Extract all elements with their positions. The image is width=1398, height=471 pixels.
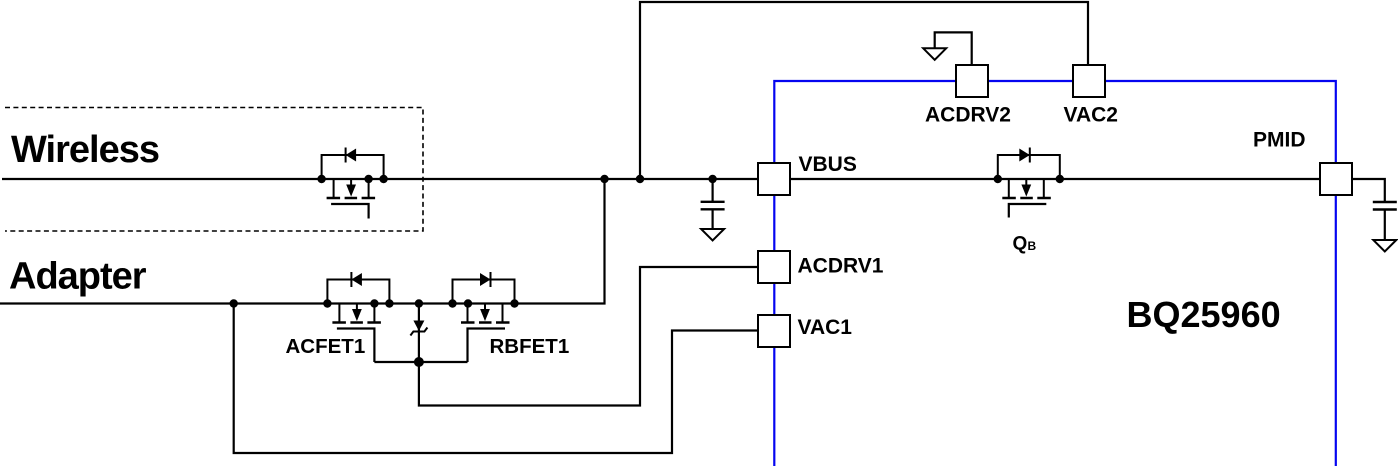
IC pin VAC2 xyxy=(1073,65,1105,97)
svg-text:ACDRV2: ACDRV2 xyxy=(925,104,1011,127)
wire: adapter input net xyxy=(0,179,605,304)
wire: VBUS to PMID through QB xyxy=(790,178,1320,180)
transistor wireless reverse-blocking FET xyxy=(317,148,387,219)
wire: top net from VBUS node to VAC2 xyxy=(640,2,1088,179)
wire: VAC1 to adapter net xyxy=(234,304,758,454)
ground at ACDRV2 xyxy=(923,48,946,60)
node: wireless/adapter merge junction xyxy=(600,175,608,183)
node: adapter/VAC1 junction xyxy=(230,299,238,307)
svg-text:ACDRV1: ACDRV1 xyxy=(798,255,884,278)
svg-text:ACFET1: ACFET1 xyxy=(286,335,366,358)
wire: wireless input net to VBUS xyxy=(2,178,758,180)
node: zener top junction on adapter net xyxy=(415,299,423,307)
svg-text:RBFET1: RBFET1 xyxy=(490,335,570,358)
wire: ACDRV1 to FET gates xyxy=(419,267,758,406)
transistor RBFET1 xyxy=(448,272,518,362)
svg-text:BQ25960: BQ25960 xyxy=(1127,294,1281,335)
wire: ACDRV2 to ground xyxy=(935,32,972,65)
IC pin PMID xyxy=(1320,163,1352,195)
wire: zener branch from adapter net xyxy=(418,304,420,363)
capacitor at VBUS xyxy=(701,202,725,210)
wire: PMID output to capacitor xyxy=(1352,179,1385,240)
IC pin VBUS xyxy=(758,163,790,195)
IC boundary BQ25960 (blue box) xyxy=(774,81,1336,466)
svg-text:VAC2: VAC2 xyxy=(1064,104,1118,127)
ground at VBUS capacitor xyxy=(701,229,724,241)
svg-text:B: B xyxy=(1028,239,1037,253)
IC pin ACDRV2 xyxy=(956,65,988,97)
svg-text:Q: Q xyxy=(1013,234,1028,255)
zener diode D1 xyxy=(410,321,427,336)
svg-text:PMID: PMID xyxy=(1253,129,1306,152)
node: gate link junction xyxy=(414,357,424,367)
svg-text:Adapter: Adapter xyxy=(9,256,147,298)
node: top-net tap junction xyxy=(636,175,644,183)
wire: gate link between ACFET1 and RBFET1 xyxy=(374,361,467,363)
wire: VBUS capacitor tap xyxy=(711,179,713,229)
transistor QB blocking FET xyxy=(994,148,1064,218)
svg-text:Wireless: Wireless xyxy=(11,129,159,171)
svg-text:VAC1: VAC1 xyxy=(798,316,853,339)
svg-text:VBUS: VBUS xyxy=(799,153,857,176)
transistor ACFET1 xyxy=(323,272,393,362)
node: VBUS capacitor junction xyxy=(708,175,716,183)
capacitor at PMID xyxy=(1373,202,1397,210)
IC pin VAC1 xyxy=(758,315,790,347)
ground at PMID capacitor xyxy=(1373,240,1396,252)
dashed box around wireless input xyxy=(5,108,423,232)
IC pin ACDRV1 xyxy=(758,251,790,283)
